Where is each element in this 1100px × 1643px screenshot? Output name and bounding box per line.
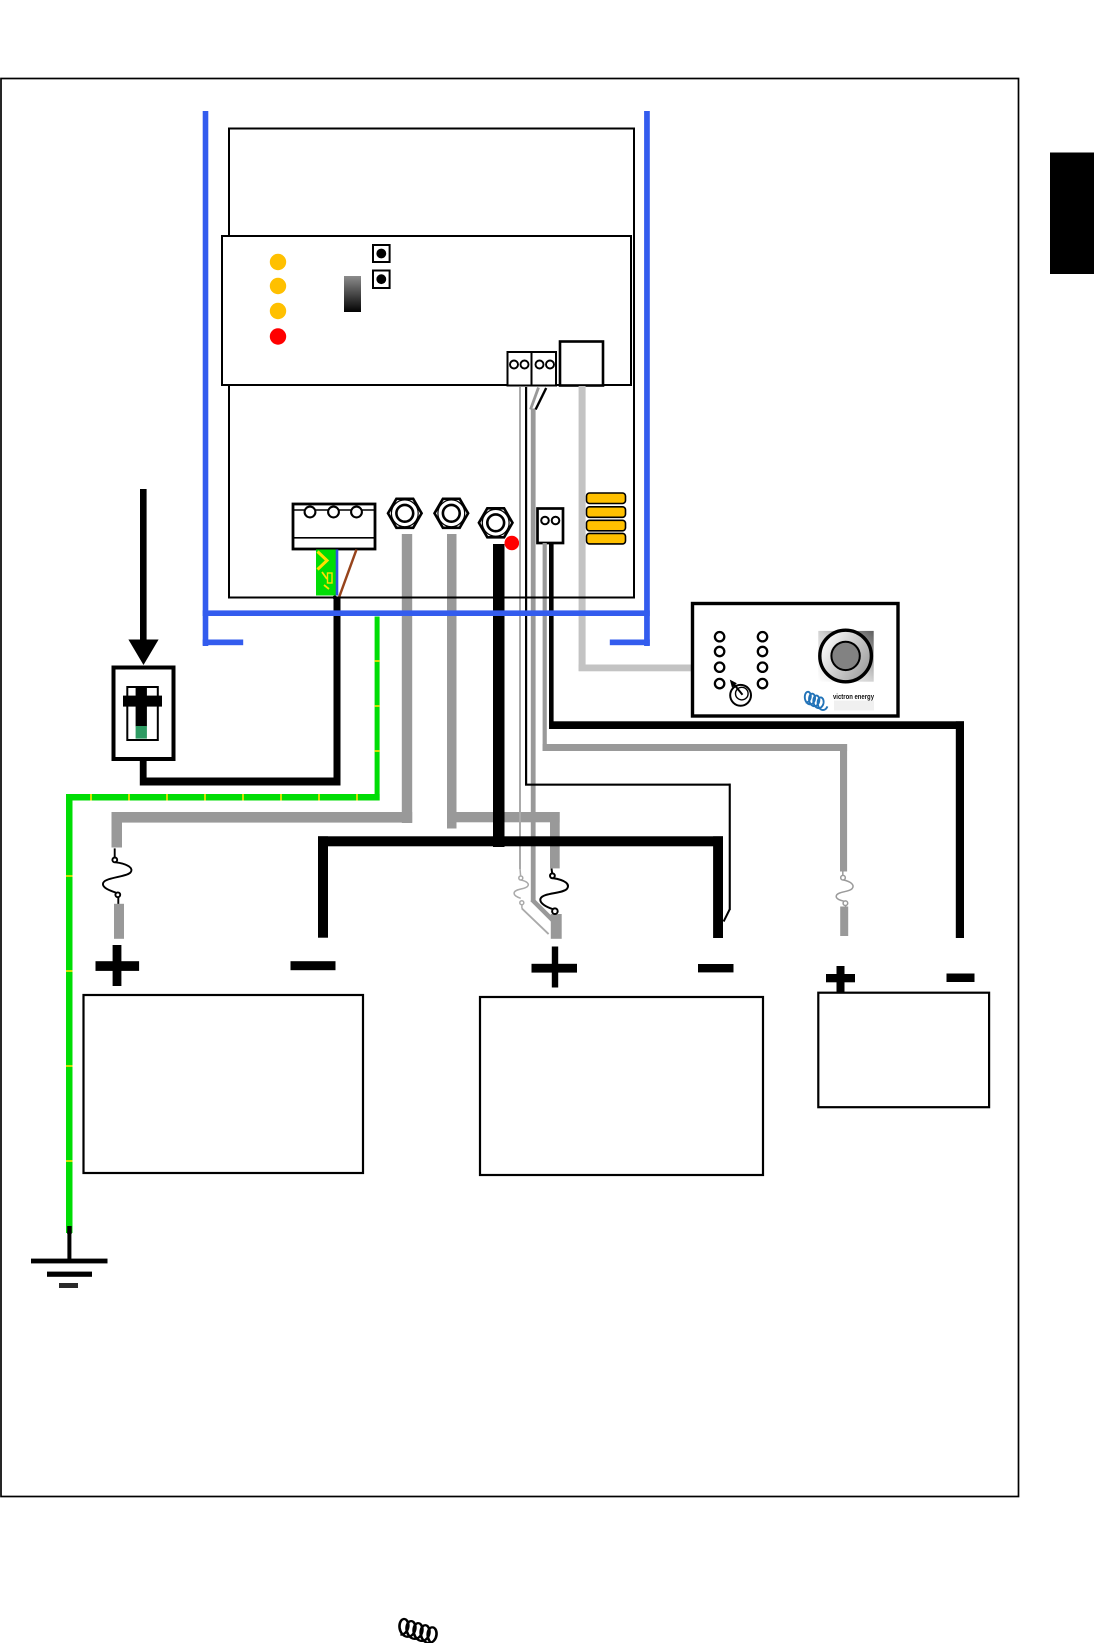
remote selector knob	[730, 680, 751, 706]
battery 1 minus sign	[291, 961, 336, 970]
charger outline box	[229, 129, 634, 598]
victron logo coil (blue)	[805, 692, 828, 710]
LED yellow 3	[270, 303, 286, 319]
wire: black minus from charger	[493, 544, 505, 847]
fuse F2 (house battery 2 positive)	[540, 869, 568, 915]
earth wire yellow marks	[66, 660, 380, 1162]
battery terminal nut 2 (+)	[435, 499, 469, 528]
wire: gray positive to house battery 1	[112, 534, 413, 848]
LED yellow 2	[270, 278, 286, 294]
remote LED holes left column	[715, 632, 724, 688]
border frame	[1, 79, 1019, 1497]
junction dot	[333, 596, 337, 600]
brown wire (AC line lead)	[339, 550, 357, 598]
AC plug box	[114, 668, 174, 760]
sense fuse (light gray)	[514, 869, 528, 909]
LED yellow 1	[270, 254, 286, 270]
black tab (right margin marker)	[1050, 153, 1094, 275]
svg-text:victron energy: victron energy	[833, 692, 874, 701]
house battery 1	[84, 995, 364, 1173]
sense wire black	[525, 387, 731, 910]
charger bottom edge redraw	[229, 597, 634, 599]
battery 1 plus sign	[96, 945, 140, 986]
green PCB connector	[316, 550, 336, 596]
plug pin vertical	[136, 687, 147, 727]
sense wire light gray	[519, 387, 521, 869]
plug inner outline	[127, 687, 158, 740]
victron coil footer logo	[400, 1619, 437, 1643]
battery terminal nut 3 (-)	[479, 508, 513, 537]
AC input terminal strip	[293, 504, 375, 549]
yellow cooling fins	[587, 493, 626, 544]
push button B1	[373, 245, 390, 262]
battery terminal nut 1 (+)	[388, 499, 422, 528]
AC arrow head	[128, 640, 158, 666]
battery 1 positive post lead	[114, 904, 124, 939]
push button B2	[373, 271, 390, 289]
sense terminal block cell 2	[532, 352, 557, 386]
battery 2 plus sign	[532, 947, 578, 988]
remote panel cable (light gray)	[579, 386, 693, 671]
red dot on minus terminal	[505, 536, 520, 551]
minus bus bar wire	[318, 836, 723, 938]
starter battery	[818, 993, 989, 1107]
starter battery plus wire (gray)	[543, 543, 848, 872]
battery 2 minus sign	[698, 964, 734, 972]
black diagonal from sense block	[536, 388, 547, 410]
starter plus feed from sense block (gray diagonal)	[531, 388, 539, 410]
remote connector box	[560, 342, 603, 386]
starter battery minus sign	[947, 974, 975, 983]
blue frame left vertical	[203, 111, 209, 646]
remote LED holes right column	[758, 632, 767, 688]
sense gray diagonal to plus post	[522, 909, 549, 935]
earth wire (green/yellow)	[66, 617, 380, 1234]
blue frame right vertical	[644, 111, 650, 646]
ground lead	[67, 1226, 72, 1261]
house battery 2	[480, 997, 763, 1175]
ground symbol	[31, 1259, 108, 1288]
charger front panel box	[222, 236, 631, 385]
sense black diagonal to minus post	[724, 910, 730, 922]
LED red	[270, 328, 286, 344]
AC mains black wire	[140, 598, 341, 786]
plug cross bar	[123, 696, 162, 707]
remote control panel	[693, 604, 899, 717]
remote big knob	[820, 630, 872, 682]
faint subtext	[834, 701, 874, 711]
blue frame horizontal	[203, 610, 650, 616]
blue wire stub on connector	[336, 550, 339, 596]
battery 2 positive post lead	[551, 914, 562, 939]
starter battery minus wire (black)	[549, 543, 964, 938]
plug teal tip	[136, 726, 147, 739]
switch (gradient slide)	[344, 276, 361, 312]
remote big knob center	[831, 642, 859, 670]
remote big knob square	[818, 631, 873, 682]
blue right foot	[610, 640, 650, 646]
blue left foot	[203, 640, 244, 646]
fuse F1 (house battery 1 positive)	[103, 848, 131, 904]
starter battery plus sign	[826, 966, 855, 992]
AC arrow shaft	[140, 489, 147, 641]
fuse F3 (starter battery positive)	[836, 871, 853, 908]
gray diagonal to battery 2 post	[532, 900, 553, 921]
starter battery positive post lead	[840, 907, 848, 937]
wire: gray positive to house battery 2	[447, 534, 560, 868]
starter output fuse holder	[538, 509, 564, 544]
sense terminal block cell 1	[508, 352, 532, 386]
starter feed gray down wire	[531, 409, 536, 901]
